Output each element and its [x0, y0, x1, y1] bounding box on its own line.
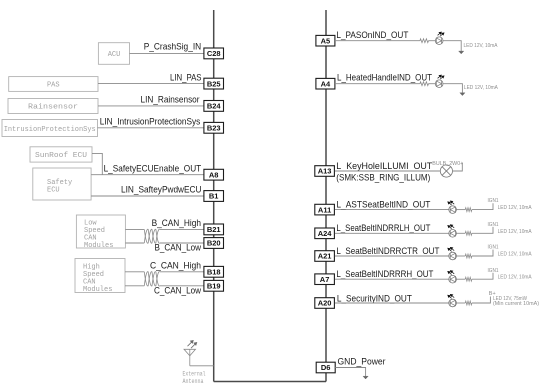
svg-text:B23: B23: [207, 124, 221, 133]
wire to IGN1: [472, 203, 493, 209]
pin B19: [204, 280, 224, 291]
wire to supply: [453, 163, 463, 172]
wire L_ASTSeatBeltIND_OUT: [335, 209, 449, 211]
pin A13: [315, 166, 335, 177]
wire C_CAN_Low: [125, 285, 144, 287]
resistor A20 row: [465, 301, 472, 305]
wire L_KeyHoleILLUMI_OUT: [335, 170, 440, 172]
svg-text:LED 12V, 10mA: LED 12V, 10mA: [498, 229, 532, 235]
svg-text:C_CAN_High: C_CAN_High: [150, 261, 201, 272]
wire GND_Power: [335, 368, 365, 377]
svg-text:Modules: Modules: [83, 286, 112, 294]
svg-text:Rainsensor: Rainsensor: [28, 104, 78, 112]
svg-text:B_CAN_Low: B_CAN_Low: [155, 242, 202, 253]
LED A7 row: [449, 275, 457, 283]
pin A11: [315, 204, 335, 215]
wire B_CAN_Low: [125, 242, 144, 244]
svg-text:External: External: [183, 370, 206, 377]
wire: [456, 232, 465, 234]
svg-text:P_CrashSig_IN: P_CrashSig_IN: [144, 42, 202, 53]
resistor A11 row: [465, 208, 472, 212]
svg-text:A11: A11: [318, 205, 331, 214]
LED A20 row: [449, 299, 457, 307]
wire L_SeatBeltINDRRCTR_OUT: [335, 255, 449, 257]
resistor A4 row: [420, 82, 429, 86]
svg-text:C_CAN_Low: C_CAN_Low: [154, 285, 201, 296]
svg-text:(Min current 10mA): (Min current 10mA): [493, 301, 539, 307]
wire: [456, 255, 465, 257]
wire LIN_PAS: [98, 83, 204, 85]
wire to ground: [443, 84, 462, 93]
wire LIN_Rainsensor: [98, 105, 204, 107]
svg-text:LED 12V, 10mA: LED 12V, 10mA: [498, 252, 532, 258]
pin A20: [315, 298, 335, 309]
wire to ground: [443, 41, 461, 51]
wire antenna to bus: [190, 365, 214, 367]
twisted pair C_CAN: [144, 272, 159, 286]
LED A4 row: [435, 80, 443, 88]
wire C_CAN_High: [125, 271, 144, 273]
svg-text:IGN1: IGN1: [488, 222, 499, 228]
svg-text:A8: A8: [209, 170, 219, 179]
wire B_CAN_High: [125, 228, 144, 230]
svg-text:(SMK:SSB_RING_ILLUM): (SMK:SSB_RING_ILLUM): [336, 173, 430, 184]
svg-text:L_SeatBeltINDRRLH_OUT: L_SeatBeltINDRRLH_OUT: [336, 223, 430, 234]
ground GND_Power: [363, 376, 368, 379]
antenna External Antenna: [184, 349, 196, 366]
resistor A21 row: [465, 254, 472, 258]
svg-text:L_SeatBeltINDRRCTR_OUT: L_SeatBeltINDRRCTR_OUT: [336, 246, 439, 257]
LED A24 row: [449, 230, 457, 238]
wire L_PASOnIND_OUT: [335, 40, 420, 42]
pin A5: [316, 35, 335, 46]
pin A8: [204, 169, 224, 180]
ECU box Safety ECU: [33, 168, 91, 200]
wire: [456, 209, 465, 211]
svg-text:A4: A4: [321, 79, 331, 88]
ECU box IntrusionProtectionSys: [2, 120, 98, 137]
svg-text:PAS: PAS: [47, 81, 60, 89]
pin B1: [204, 191, 224, 202]
wire to IGN1: [472, 227, 493, 233]
svg-text:GND_Power: GND_Power: [338, 356, 386, 367]
svg-text:B25: B25: [207, 79, 221, 88]
ground: [460, 93, 465, 96]
wire L_SeatBeltINDRRLH_OUT: [335, 232, 449, 234]
svg-text:Modules: Modules: [84, 242, 113, 250]
svg-text:L_ASTSeatBeltIND_OUT: L_ASTSeatBeltIND_OUT: [336, 199, 430, 210]
svg-text:LED 12V, 10mA: LED 12V, 10mA: [498, 275, 532, 281]
svg-text:L_SafetyECUEnable_OUT: L_SafetyECUEnable_OUT: [104, 163, 202, 174]
wire L_HeatedHandleIND_OUT: [335, 83, 420, 85]
pin A21: [315, 251, 335, 262]
LED A21 row: [449, 252, 457, 260]
pin B24: [204, 101, 224, 112]
twisted pair B_CAN: [144, 229, 159, 243]
svg-text:B21: B21: [207, 225, 221, 234]
wire LIN_IntrusionProtectionSys: [98, 127, 205, 129]
ECU box ACU: [98, 43, 129, 65]
svg-text:SunRoof ECU: SunRoof ECU: [35, 152, 87, 160]
pin B21: [204, 224, 224, 235]
resistor A7 row: [465, 277, 472, 281]
svg-text:L_PASOnIND_OUT: L_PASOnIND_OUT: [336, 30, 408, 41]
svg-text:BULB_2W0+: BULB_2W0+: [432, 161, 463, 167]
label External Antenna: [183, 370, 206, 385]
wire SunRoof ECU to L_SafetyECUEnable_OUT node: [92, 153, 102, 174]
svg-text:ECU: ECU: [47, 187, 60, 195]
ECU box Low Speed CAN Modules: [76, 215, 125, 250]
wire P_CrashSig_IN: [130, 52, 205, 54]
LED A11 row: [449, 206, 457, 214]
svg-text:LED 12V, 10mA: LED 12V, 10mA: [498, 205, 532, 211]
right connector bus: [325, 10, 327, 382]
svg-text:LIN_Rainsensor: LIN_Rainsensor: [141, 95, 200, 106]
wire L_SafetyECUEnable_OUT: [91, 174, 204, 176]
wire: [429, 40, 436, 42]
svg-text:LIN_IntrusionProtectionSys: LIN_IntrusionProtectionSys: [100, 117, 201, 128]
svg-text:L_SeatBeltINDRRRH_OUT: L_SeatBeltINDRRRH_OUT: [336, 269, 433, 280]
svg-text:B20: B20: [207, 239, 221, 248]
svg-text:L_HeatedHandleIND_OUT: L_HeatedHandleIND_OUT: [337, 72, 432, 83]
svg-text:ACU: ACU: [108, 51, 121, 59]
svg-text:IGN1: IGN1: [488, 268, 499, 274]
pin D6: [316, 362, 335, 373]
wire to IGN1: [472, 250, 493, 256]
resistor A24 row: [465, 231, 472, 235]
pin B23: [204, 122, 224, 133]
pin B25: [204, 78, 224, 89]
pin A4: [316, 78, 335, 89]
svg-text:LIN_PAS: LIN_PAS: [170, 72, 202, 83]
svg-text:LED 12V, 10mA: LED 12V, 10mA: [464, 43, 498, 49]
wire: [456, 302, 465, 304]
wire L_SeatBeltINDRRRH_OUT: [335, 278, 449, 280]
wire: [429, 83, 436, 85]
bottom bus wire: [214, 381, 326, 383]
svg-text:A20: A20: [318, 299, 332, 308]
svg-text:IGN1: IGN1: [488, 198, 499, 204]
wire to IGN1: [472, 273, 493, 279]
pin B18: [204, 266, 224, 277]
ECU box PAS: [9, 77, 98, 92]
svg-text:B24: B24: [207, 102, 222, 111]
wire to B+: [472, 297, 491, 304]
ECU box Rainsensor: [8, 99, 98, 114]
svg-text:D6: D6: [321, 363, 331, 372]
svg-text:A24: A24: [318, 229, 333, 238]
left connector bus: [213, 10, 215, 382]
svg-text:A21: A21: [318, 252, 332, 261]
svg-text:B1: B1: [209, 192, 219, 201]
svg-text:C28: C28: [207, 49, 221, 58]
svg-text:B18: B18: [207, 268, 221, 277]
wire: [456, 278, 465, 280]
svg-text:IGN1: IGN1: [488, 245, 499, 251]
antenna signal waves: [188, 341, 197, 349]
svg-text:A5: A5: [321, 36, 331, 45]
svg-text:B19: B19: [207, 282, 221, 291]
lamp bulb: [440, 165, 452, 177]
pin A7: [315, 274, 335, 285]
svg-text:A13: A13: [318, 167, 332, 176]
ECU box High Speed CAN Modules: [75, 259, 125, 294]
ground: [459, 51, 464, 54]
svg-text:Antenna: Antenna: [183, 378, 204, 385]
svg-text:LIN_SafteyPwdwECU: LIN_SafteyPwdwECU: [121, 185, 202, 196]
resistor A5 row: [420, 39, 429, 43]
svg-text:A7: A7: [320, 275, 330, 284]
pin A24: [315, 228, 335, 239]
ECU box SunRoof ECU: [30, 147, 92, 162]
svg-text:IntrusionProtectionSys: IntrusionProtectionSys: [4, 126, 96, 134]
LED A5 row: [435, 37, 443, 45]
svg-text:B_CAN_High: B_CAN_High: [152, 218, 201, 229]
pin C28: [204, 48, 224, 59]
wire L_SecurityIND_OUT: [335, 302, 449, 304]
wire LIN_SafteyPwdwECU: [91, 195, 204, 197]
svg-text:LED 12V, 10mA: LED 12V, 10mA: [464, 85, 498, 91]
pin B20: [204, 238, 224, 249]
